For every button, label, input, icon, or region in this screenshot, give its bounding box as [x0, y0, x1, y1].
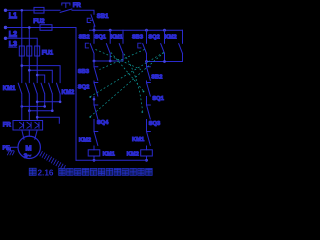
wire KM2 feed from phase A	[22, 66, 60, 83]
motor M	[18, 136, 40, 158]
fuse FU2 upper	[34, 7, 44, 13]
wire cross join phase C	[37, 101, 60, 103]
wire phase B drop	[28, 28, 30, 83]
limit switch SQ1 NC in rev branch	[147, 83, 151, 106]
thermal relay FR contact	[60, 9, 72, 12]
junction	[21, 9, 24, 12]
pushbutton SB2 NC in rev branch	[147, 62, 151, 84]
wire L1 to FR	[44, 9, 60, 11]
junction	[145, 29, 148, 32]
junction	[59, 101, 62, 104]
junction	[51, 109, 54, 112]
contactor KM1 main contact 2	[26, 83, 30, 111]
wire L1 horizontal	[7, 9, 34, 11]
contactor KM2 main contact 3	[57, 83, 61, 102]
svg-text:SQ4: SQ4	[97, 120, 109, 126]
svg-text:KM1: KM1	[111, 35, 123, 41]
coil KM1	[88, 150, 100, 156]
svg-text:KM1: KM1	[132, 137, 145, 143]
junction	[28, 26, 31, 29]
svg-text:3~: 3~	[24, 153, 32, 160]
contactor KM1 main contact 3	[34, 83, 38, 120]
pushbutton SB1 stop	[91, 15, 95, 30]
svg-text:KM2: KM2	[62, 90, 75, 96]
caption chinese text blocks	[59, 168, 153, 175]
wire L2 to left rail	[52, 28, 76, 161]
svg-text:SQ1: SQ1	[152, 96, 164, 102]
svg-text:FR: FR	[3, 122, 12, 128]
wire phase C drop	[36, 38, 38, 82]
svg-text:SB3: SB3	[78, 69, 90, 75]
svg-text:KM2: KM2	[165, 35, 177, 41]
fuse FU1 phase C	[35, 46, 40, 56]
dash SQ1 link	[111, 53, 144, 92]
mechanical link dashes	[91, 50, 165, 117]
junction	[28, 109, 31, 112]
wire FR box to motor 1	[22, 130, 24, 139]
thermal relay FR heater box	[13, 121, 43, 131]
svg-text:SQ2: SQ2	[148, 35, 159, 41]
contactor KM2 aux NO	[179, 30, 183, 61]
svg-text:KM1: KM1	[3, 86, 16, 92]
svg-text:SQ1: SQ1	[95, 35, 106, 41]
wire phase A to FR box	[21, 102, 23, 121]
svg-text:FR: FR	[73, 3, 82, 9]
wire L2 horizontal	[7, 27, 40, 29]
svg-text:FU2: FU2	[33, 19, 45, 25]
wire coil KM1 to bottom bus	[93, 156, 95, 160]
control top bus	[90, 29, 183, 31]
wire table bracket	[37, 117, 59, 123]
wire cross join phase A	[22, 105, 45, 107]
junction	[21, 105, 24, 108]
pushbutton SB3 start rev	[143, 30, 147, 61]
wire L3 horizontal	[7, 37, 37, 39]
limit switch SQ2 NO	[161, 30, 165, 61]
fuse FU1 phase B	[27, 46, 32, 56]
junction	[109, 29, 112, 32]
limit switch SQ1 NO	[106, 30, 110, 61]
junction	[28, 69, 31, 72]
limit switch SQ4 NC protection	[94, 105, 98, 132]
junction	[145, 60, 148, 63]
junction	[36, 101, 39, 104]
ground PE symbol	[7, 150, 14, 152]
wire phase B to FR box	[28, 111, 30, 121]
svg-text:KM1: KM1	[103, 152, 116, 158]
fuse FU1 phase A	[19, 46, 24, 56]
wire FR box to motor 3	[35, 130, 37, 139]
junction left series	[93, 98, 96, 101]
node L2 terminal	[4, 26, 7, 29]
junction	[21, 64, 24, 67]
wire KM2 feed from phase C	[37, 75, 45, 83]
svg-text:SB3: SB3	[132, 35, 143, 41]
heater element 2	[27, 122, 31, 128]
contactor KM1 main contact 1	[18, 83, 22, 102]
svg-text:2.16: 2.16	[38, 168, 54, 177]
dash SQ1 to SQ3 link	[124, 54, 143, 111]
junction	[109, 60, 112, 63]
junction	[43, 105, 46, 108]
junction	[36, 74, 39, 77]
wire phase A drop	[21, 10, 23, 82]
fuse FU2 lower	[40, 25, 52, 31]
wire KM2 feed from phase B	[29, 70, 52, 82]
wire coil KM2 to bottom bus	[146, 156, 148, 160]
contactor KM2 NC interlock	[94, 132, 98, 150]
wire cross join phase B	[29, 110, 52, 112]
wire FR to corner	[72, 10, 94, 14]
junction	[145, 159, 148, 162]
node L1 terminal	[4, 9, 7, 12]
svg-text:FU1: FU1	[42, 51, 54, 57]
junction	[93, 60, 96, 63]
node line left group	[94, 60, 123, 62]
coil KM2	[141, 150, 153, 156]
junction	[36, 116, 39, 119]
caption figure number	[29, 168, 36, 175]
svg-text:M: M	[25, 144, 31, 153]
contactor KM2 main contact 1	[41, 83, 45, 106]
svg-text:PE: PE	[3, 145, 11, 151]
dash SQ2 link	[91, 53, 164, 97]
heater element 1	[20, 122, 24, 128]
wire FR box to motor 2	[28, 130, 30, 136]
mechanical shaft hatching	[40, 152, 65, 170]
dash SQ2 to SQ4 link	[91, 53, 165, 117]
junction	[163, 60, 166, 63]
svg-text:SQ3: SQ3	[149, 121, 161, 127]
junction	[93, 29, 96, 32]
bottom bus	[76, 159, 147, 161]
dash end dots	[89, 91, 144, 118]
svg-text:SB1: SB1	[97, 14, 109, 20]
limit switch SQ3 NC protection	[147, 105, 151, 132]
svg-text:SB2: SB2	[79, 35, 90, 41]
contactor KM1 aux NO	[119, 30, 123, 61]
junction	[93, 159, 96, 162]
svg-text:KM2: KM2	[127, 152, 139, 158]
contactor KM1 NC interlock	[147, 132, 151, 150]
pushbutton SB2 start fwd	[90, 30, 94, 61]
junction	[163, 29, 166, 32]
svg-text:SQ2: SQ2	[78, 84, 90, 90]
contactor KM2 main contact 2	[49, 83, 53, 111]
node line right group	[147, 61, 183, 63]
limit switch SQ2 NC in fwd branch	[94, 83, 98, 106]
pushbutton SB3 NC in fwd branch	[94, 61, 98, 83]
dash SB2 link	[96, 50, 142, 70]
svg-text:SB2: SB2	[151, 74, 162, 80]
heater element 3	[35, 122, 39, 128]
ground PE wire	[11, 147, 19, 151]
svg-text:KM2: KM2	[79, 138, 91, 144]
node L3 terminal	[4, 37, 7, 40]
dash SB3 link	[100, 50, 145, 70]
